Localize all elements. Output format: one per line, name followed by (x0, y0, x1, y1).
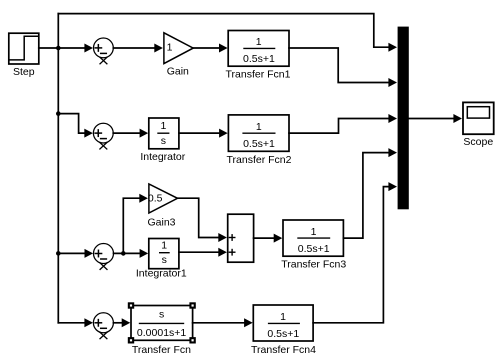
unconnected minus port mark sum 3 (100, 263, 107, 269)
wire Transfer Fcn1 to Mux input 2 (289, 48, 390, 83)
svg-text:1: 1 (160, 120, 166, 132)
arrow into sum 3 (85, 249, 94, 258)
svg-text:Integrator: Integrator (140, 151, 185, 163)
arrow into Mux input 2 (388, 78, 397, 87)
svg-text:Integrator1: Integrator1 (136, 268, 187, 280)
integrator block Integrator1 (149, 239, 179, 269)
mux block (398, 27, 409, 210)
unconnected minus port mark sum 4 (100, 332, 107, 338)
arrow into Mux input 3 (388, 114, 397, 123)
source block Step (9, 33, 39, 64)
gain block Gain (164, 33, 193, 64)
wire Gain3 to Add top input (178, 198, 220, 237)
svg-text:0.5s+1: 0.5s+1 (298, 243, 330, 255)
wire Integrator to Transfer Fcn2 (179, 132, 220, 134)
sum block 4 (93, 313, 113, 333)
transfer function block Transfer Fcn (selected) (131, 306, 193, 341)
arrow into Transfer Fcn (122, 318, 131, 327)
svg-text:Gain: Gain (167, 65, 189, 77)
wire Transfer Fcn4 to Mux input 5 (313, 187, 390, 323)
wire sum3 to Integrator1 (114, 252, 141, 254)
wire sum4 to Transfer Fcn (113, 322, 122, 324)
wire Integrator1 to Add bottom input (179, 251, 219, 253)
transfer function block Transfer Fcn3 (283, 220, 343, 256)
svg-text:1: 1 (256, 121, 262, 133)
selection handle top-right of Transfer Fcn (189, 302, 195, 308)
sum block 1 (94, 38, 114, 58)
integrator block Integrator (149, 118, 179, 149)
wire Step output (39, 47, 85, 49)
arrow into Mux input 5 (388, 182, 397, 191)
arrow into sum 4 (84, 318, 93, 327)
arrow into Mux input 1 (388, 43, 397, 52)
add block (228, 214, 254, 262)
svg-text:0.5s+1: 0.5s+1 (243, 138, 275, 150)
arrow into Transfer Fcn4 (244, 318, 253, 327)
svg-text:Gain3: Gain3 (147, 217, 175, 229)
wire Add to Transfer Fcn3 (254, 237, 275, 239)
svg-text:1: 1 (167, 42, 173, 54)
arrow into Transfer Fcn3 (274, 234, 283, 243)
svg-text:1: 1 (161, 240, 167, 252)
svg-text:1: 1 (256, 36, 262, 48)
arrow into Gain3 (139, 194, 148, 203)
wire branch to row 2 (58, 114, 85, 134)
svg-text:0.5s+1: 0.5s+1 (267, 328, 299, 340)
svg-text:1: 1 (280, 311, 286, 323)
arrow into Transfer Fcn2 (219, 129, 228, 138)
arrow into Scope (453, 114, 462, 123)
wire Mux to Scope (409, 118, 454, 120)
junction sum3 output (121, 251, 126, 256)
svg-text:s: s (162, 254, 167, 266)
scope block Scope (463, 102, 494, 134)
wire sum1 to Gain (113, 47, 155, 49)
junction row 2 (56, 111, 61, 116)
svg-text:s: s (159, 308, 164, 320)
arrow into Integrator (140, 129, 149, 138)
svg-text:0.0001s+1: 0.0001s+1 (137, 327, 186, 339)
arrow into Add top input (218, 233, 227, 242)
svg-text:Transfer Fcn4: Transfer Fcn4 (251, 344, 316, 356)
wire branch to row 3 (58, 252, 85, 254)
transfer function block Transfer Fcn1 (228, 31, 289, 67)
wire branch up to Gain3 (123, 198, 140, 253)
wire trunk vertical (57, 14, 59, 323)
svg-text:Scope: Scope (463, 136, 493, 148)
sum block 2 (93, 123, 113, 143)
selection handle bottom-right of Transfer Fcn (189, 337, 195, 343)
wire Transfer Fcn2 to Mux input 3 (289, 119, 390, 134)
wire sum2 to Integrator (113, 132, 140, 134)
sum block 3 (94, 244, 114, 264)
wire top feed to Mux input 1 (58, 14, 390, 48)
svg-text:Transfer Fcn1: Transfer Fcn1 (226, 69, 291, 81)
arrow into sum 1 (84, 44, 93, 53)
svg-text:s: s (161, 135, 166, 147)
svg-text:0.5s+1: 0.5s+1 (243, 53, 275, 65)
wire Transfer Fcn3 to Mux input 4 (343, 153, 390, 239)
svg-text:0.5: 0.5 (148, 193, 163, 205)
arrow into Add bottom input (218, 248, 227, 257)
arrow into Gain (154, 44, 163, 53)
wire trunk corner into row 4 (58, 322, 85, 324)
transfer function block Transfer Fcn2 (228, 115, 289, 151)
junction row 3 (56, 251, 61, 256)
wire Transfer Fcn to Transfer Fcn4 (193, 322, 245, 324)
svg-text:1: 1 (311, 226, 317, 238)
selection handle bottom-left of Transfer Fcn (128, 337, 134, 343)
svg-text:Step: Step (13, 66, 35, 78)
junction row 1 (56, 46, 61, 51)
arrow into Integrator1 (140, 249, 149, 258)
svg-text:Transfer Fcn2: Transfer Fcn2 (227, 154, 292, 166)
svg-text:Transfer Fcn: Transfer Fcn (132, 344, 191, 356)
arrow into sum 2 (84, 129, 93, 138)
wire Gain to Transfer Fcn1 (193, 47, 220, 49)
transfer function block Transfer Fcn4 (253, 305, 313, 341)
arrow into Transfer Fcn1 (219, 44, 228, 53)
svg-text:Transfer Fcn3: Transfer Fcn3 (281, 259, 346, 271)
arrow into Mux input 4 (388, 148, 397, 157)
unconnected minus port mark sum 2 (100, 143, 107, 149)
unconnected minus port mark sum 1 (100, 57, 107, 63)
gain block Gain3 (149, 184, 178, 213)
selection handle top-left of Transfer Fcn (128, 302, 134, 308)
